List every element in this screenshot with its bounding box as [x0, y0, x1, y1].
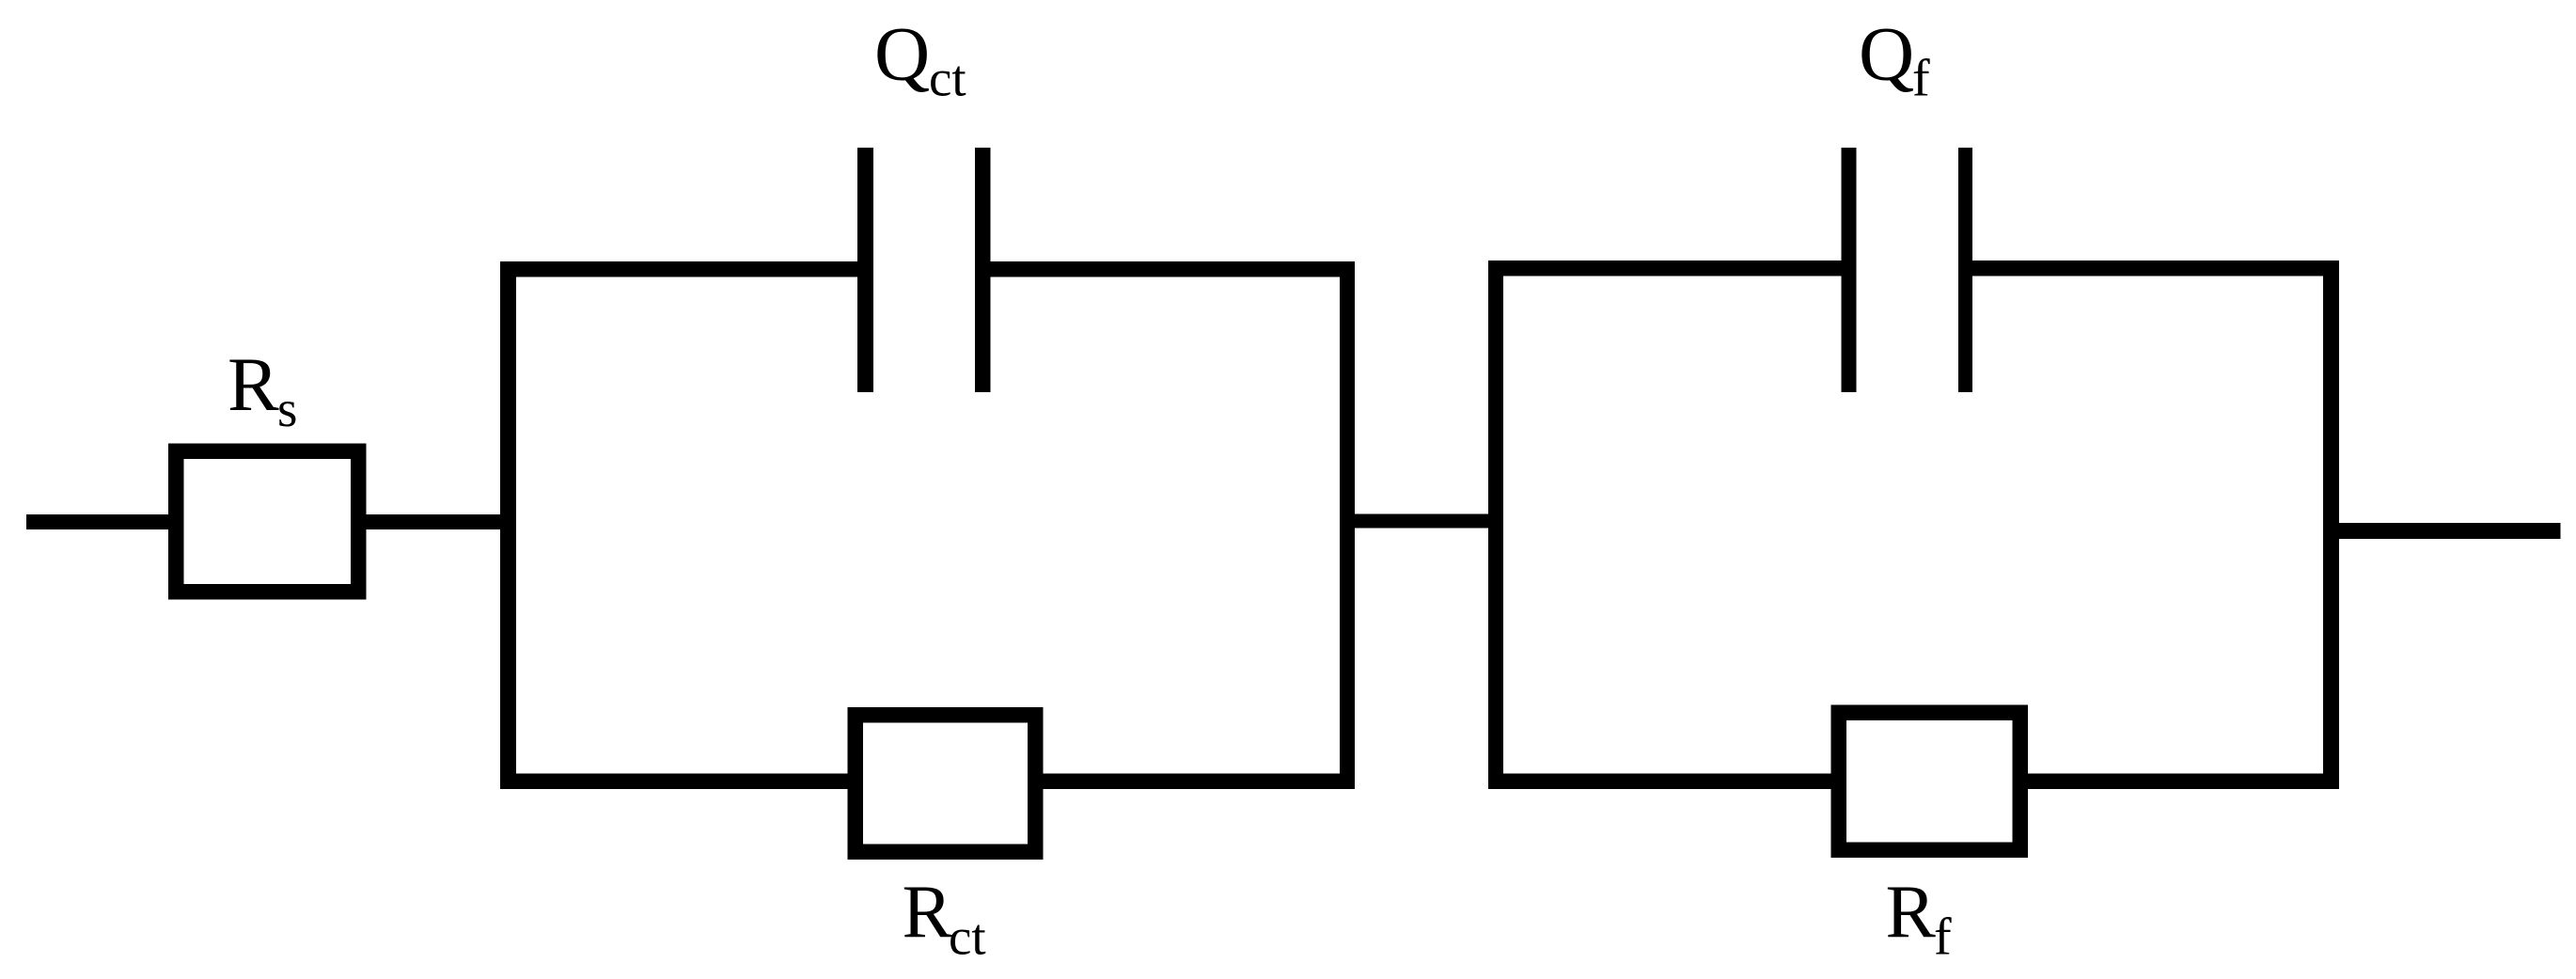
wire loop1 top left segment [500, 261, 857, 277]
capacitor Qf right plate [1958, 148, 1972, 392]
wire loop2 top right segment [1972, 261, 2339, 276]
label Qct [874, 11, 966, 107]
wire loop1 bottom left segment [500, 774, 848, 790]
wire loop1 top right segment [991, 261, 1356, 277]
svg-text:R: R [1886, 871, 1937, 954]
wire loop1 right vertical [1340, 261, 1355, 789]
svg-text:Q: Q [874, 11, 930, 97]
wire loop2 bottom right segment [2028, 774, 2339, 790]
label Rf [1886, 871, 1953, 967]
resistor Rs [168, 444, 367, 600]
label Qf [1859, 11, 1930, 108]
wire loop1 left vertical [500, 261, 516, 789]
wire left lead [26, 514, 168, 529]
svg-text:ct: ct [949, 908, 986, 966]
resistor Rct [848, 707, 1044, 860]
wire right lead [2339, 523, 2561, 539]
svg-text:R: R [228, 341, 279, 427]
svg-text:Q: Q [1859, 11, 1914, 97]
wire Rs to loop1 [366, 514, 516, 529]
wire loop2 left vertical [1488, 261, 1503, 789]
wire middle connector [1355, 514, 1488, 529]
label Rs [228, 341, 297, 437]
label Rct [903, 871, 986, 966]
svg-text:f: f [1934, 908, 1952, 967]
wire loop2 top left segment [1488, 261, 1842, 276]
svg-text:ct: ct [929, 50, 966, 107]
wire loop2 right vertical [2323, 261, 2339, 789]
capacitor Qf left plate [1842, 148, 1857, 392]
wire loop2 bottom left segment [1488, 774, 1831, 790]
wire loop1 bottom right segment [1043, 774, 1355, 790]
svg-text:f: f [1912, 50, 1930, 108]
capacitor Qct left plate [857, 148, 873, 392]
svg-text:R: R [903, 871, 953, 954]
capacitor Qct right plate [975, 148, 991, 392]
resistor Rf [1831, 705, 2029, 859]
svg-text:s: s [277, 380, 297, 437]
